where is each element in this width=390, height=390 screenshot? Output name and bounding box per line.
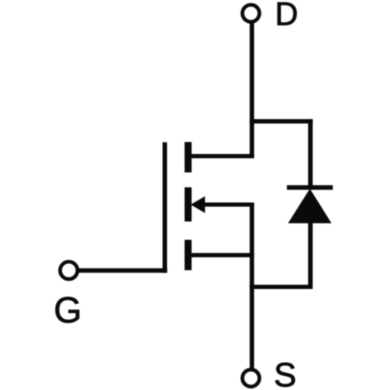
wire: source node vertical down to S [250,203,254,370]
wire: source contact horizontal [190,253,255,257]
wire: gate vertical line [163,142,168,272]
MOSFET body arrow (points into channel, N-channel) [191,196,205,213]
svg-text:G: G [54,290,82,331]
terminal G circle [60,262,77,279]
svg-text:S: S [274,357,297,390]
MOSFET body channel plate (middle bar) [185,187,192,221]
diode D1 cathode bar [287,185,333,190]
wire: drain contact horizontal [190,154,255,158]
wire: body connection horizontal [197,203,254,207]
wire: diode branch vertical upper [308,119,313,187]
terminal S circle [242,370,259,387]
wire: drain node horizontal to diode cathode branch [250,119,313,123]
wire: gate horizontal from G circle [78,268,168,272]
MOSFET drain channel plate (top bar) [185,142,192,172]
svg-text:D: D [275,0,298,32]
wire: diode branch vertical lower [308,222,313,289]
diode D1 anode triangle [288,189,332,224]
wire: drain vertical from D circle to drain contact [250,23,254,159]
wire: source node horizontal to diode anode branch [250,285,313,289]
terminal D circle [242,5,259,22]
MOSFET source channel plate (bottom bar) [185,240,192,270]
